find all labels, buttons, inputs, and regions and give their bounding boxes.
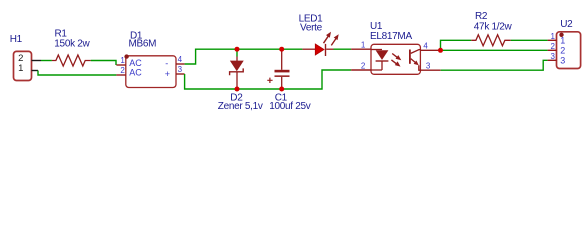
bridge rectifier D1 [124,54,176,87]
svg-text:47k 1/2w: 47k 1/2w [474,22,513,33]
svg-text:-: - [165,58,168,68]
svg-text:3: 3 [178,65,183,74]
zener diode D2 [230,49,244,89]
H1 pin 2 stub [32,60,42,62]
optocoupler U1 [371,44,420,74]
wire U1.4 to R2 [441,40,472,50]
wire D1.3 to bottom rail and U1.2 [185,70,352,89]
svg-text:4: 4 [423,41,428,50]
svg-text:3: 3 [560,56,565,66]
wire H1.2 to R1 [41,60,52,62]
junction dot U1.4 [438,48,443,53]
D1 pin 4 stub [176,63,185,65]
connector H1 [14,51,32,80]
junction dot D2 bottom [235,87,240,92]
svg-text:150k 2w: 150k 2w [54,39,90,50]
junction dot C1 bottom [279,87,284,92]
U2 pin 1 stub [548,39,557,41]
svg-text:2: 2 [550,42,555,51]
svg-text:1: 1 [361,41,366,50]
D1 pin 1 stub [116,64,125,66]
svg-text:U2: U2 [560,19,573,30]
wire U1.3 to U2.3 [441,60,548,70]
svg-text:2: 2 [361,62,366,71]
wire U1.4 to U2.2 [443,49,548,51]
svg-text:100uf 25v: 100uf 25v [269,101,311,112]
wire H1.1 to D1 pin 2 [38,71,116,76]
connector U2 [557,32,581,69]
svg-text:EL817MA: EL817MA [370,31,412,42]
junction dot C1 top [279,47,284,52]
H1 pin 1 stub [32,70,39,72]
svg-text:1: 1 [18,63,23,74]
svg-text:4: 4 [178,55,183,64]
U1 pin 1 stub [351,48,371,50]
svg-text:2: 2 [560,45,565,55]
U2 pin 2 stub [548,49,557,51]
svg-text:1: 1 [550,32,555,41]
resistor R2 [471,35,511,46]
svg-text:2: 2 [120,66,125,75]
U1 pin 2 stub [351,69,371,71]
U1 pin 4 stub [420,49,438,51]
wire LED1 to U1.1 [334,48,352,50]
svg-text:+: + [165,69,170,79]
svg-text:3: 3 [550,52,555,61]
svg-text:H1: H1 [10,34,23,45]
junction dot D2 top [235,47,240,52]
svg-text:3: 3 [426,61,431,70]
LED LED1 [302,32,338,56]
D1 pin 3 stub [176,73,185,75]
svg-text:1: 1 [120,56,125,65]
svg-text:1: 1 [560,35,565,45]
svg-text:AC: AC [129,67,142,77]
U1 pin 3 stub [420,69,440,71]
capacitor C1 [267,51,289,89]
wire D1.4 to top rail [185,49,303,64]
svg-text:R2: R2 [475,11,488,22]
wire R2 to U2.1 [511,39,548,41]
resistor R1 [52,55,91,66]
svg-text:Verte: Verte [300,22,323,33]
svg-text:Zener 5,1v: Zener 5,1v [218,101,263,112]
U2 pin 3 stub [548,59,557,61]
wire R1 to D1 pin 1 [91,61,116,66]
svg-text:MB6M: MB6M [129,38,157,49]
svg-text:AC: AC [129,58,142,68]
D1 pin 2 stub [116,74,125,76]
